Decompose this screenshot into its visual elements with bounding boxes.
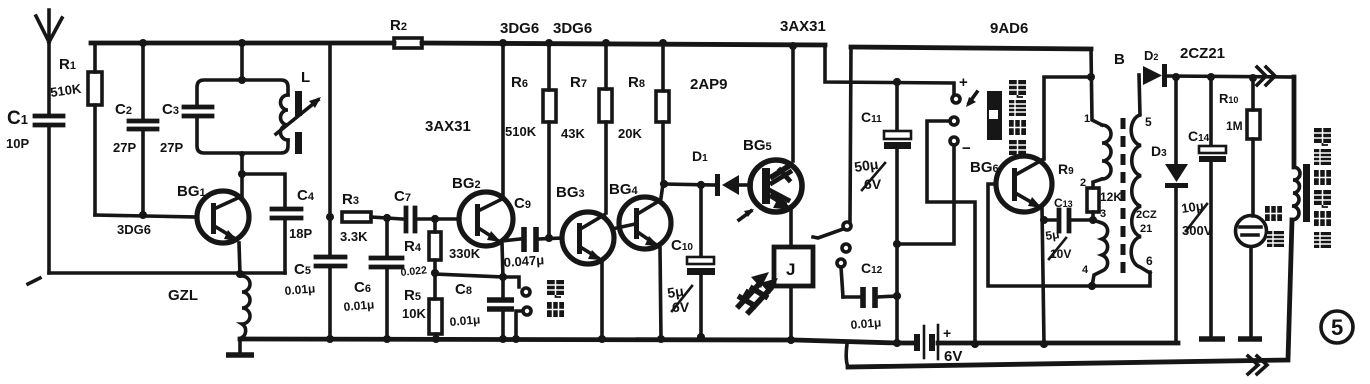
node R3/C6 junction xyxy=(383,214,391,222)
wire BG2 emitter down xyxy=(502,243,503,277)
label neon CJK xyxy=(1265,206,1284,247)
resistor R10 xyxy=(1219,78,1260,216)
svg-text:10P: 10P xyxy=(6,136,29,151)
label select (CJK) xyxy=(547,280,564,297)
diode D1 xyxy=(692,148,751,196)
svg-text:J: J xyxy=(786,260,795,279)
electromagnet core bar xyxy=(1303,164,1310,222)
wire BG6 base left and down to feedback xyxy=(988,184,1150,290)
capacitor C7 xyxy=(387,188,459,231)
node R10 top xyxy=(1249,74,1257,82)
wire antenna down to C1 xyxy=(47,42,51,113)
svg-text:6V: 6V xyxy=(672,299,690,315)
svg-text:300V: 300V xyxy=(1182,223,1213,238)
label power-jack CJK column xyxy=(1009,80,1026,157)
svg-text:0.01μ: 0.01μ xyxy=(449,312,481,329)
decorative tick xyxy=(28,278,40,284)
svg-text:6: 6 xyxy=(1146,254,1153,268)
diode D2 xyxy=(1143,48,1167,87)
wire rail corner down to winding 1 xyxy=(1091,49,1102,125)
svg-text:1: 1 xyxy=(1084,113,1090,125)
node C11 top junction xyxy=(893,78,901,86)
wire tank top riser xyxy=(238,39,246,84)
transistor BG2 xyxy=(452,175,513,246)
svg-text:0.01μ: 0.01μ xyxy=(343,297,375,314)
top rail xyxy=(91,43,825,45)
svg-text:−: − xyxy=(962,140,971,157)
svg-text:0.047μ: 0.047μ xyxy=(503,252,544,270)
svg-text:27P: 27P xyxy=(160,140,183,155)
wire rail drop to outer loop xyxy=(846,344,848,367)
wire right edge loop xyxy=(848,77,1294,367)
svg-text:12K: 12K xyxy=(1100,190,1122,204)
wire BG6 collector up xyxy=(1044,77,1091,159)
resistor R4 xyxy=(400,219,481,279)
wire BG3 emitter down xyxy=(598,261,606,343)
svg-text:2AP9: 2AP9 xyxy=(690,76,728,93)
resistor R1 xyxy=(49,43,102,215)
node D3 top xyxy=(1172,73,1180,81)
transistor BG6 xyxy=(996,156,1052,212)
capacitor C6 xyxy=(343,218,402,343)
capacitor C13 xyxy=(1044,196,1093,261)
svg-text:9AD6: 9AD6 xyxy=(990,20,1028,37)
node transformer top junction xyxy=(1087,73,1095,81)
wire BG1 emitter down xyxy=(239,243,240,274)
transformer primary upper winding xyxy=(1084,113,1111,179)
svg-text:0.01μ: 0.01μ xyxy=(850,315,882,332)
resistor R2 xyxy=(390,17,422,48)
node D1 wire junction xyxy=(660,180,668,188)
ground C14 xyxy=(1199,336,1225,342)
svg-text:3AX31: 3AX31 xyxy=(780,18,826,35)
svg-text:3DG6: 3DG6 xyxy=(553,20,592,37)
svg-text:1M: 1M xyxy=(1226,119,1243,133)
wire BG5 emitter to J xyxy=(789,210,793,247)
capacitor C1 xyxy=(6,108,63,151)
capacitor C12 xyxy=(843,260,897,332)
transistor BG1 xyxy=(117,183,249,243)
svg-text:330K: 330K xyxy=(449,246,481,261)
svg-text:3.3K: 3.3K xyxy=(340,229,368,244)
wire BG2 collector riser xyxy=(499,39,507,197)
node emitter junction xyxy=(236,270,244,278)
svg-text:5: 5 xyxy=(1331,315,1343,340)
light arrow small xyxy=(739,209,754,220)
wire R4 junction to C8 xyxy=(435,274,503,277)
ground neon xyxy=(1238,336,1262,342)
svg-text:C13: C13 xyxy=(1054,196,1073,210)
svg-text:43K: 43K xyxy=(561,126,585,141)
label trigger switch CJK column xyxy=(1314,128,1331,248)
svg-text:3DG6: 3DG6 xyxy=(117,222,151,237)
svg-text:20K: 20K xyxy=(618,126,642,141)
svg-text:0.01μ: 0.01μ xyxy=(284,281,316,298)
transformer primary lower winding xyxy=(1082,220,1108,286)
wire BG3 to BG4 base xyxy=(612,224,635,229)
wire C4 top branch xyxy=(242,174,285,207)
wire left bottom horizontal xyxy=(49,271,285,275)
ground xyxy=(226,339,254,355)
svg-text:4: 4 xyxy=(1082,264,1089,276)
svg-text:+: + xyxy=(959,74,968,91)
svg-text:L: L xyxy=(301,69,310,86)
wire BG4 emitter down xyxy=(657,248,665,343)
electromagnet coil xyxy=(1292,167,1300,220)
wire base rail y215 xyxy=(95,215,197,217)
transistor BG4 xyxy=(609,181,671,249)
node R4 top junction xyxy=(431,215,439,223)
resistor R3 xyxy=(340,191,387,244)
wire C1 down to bottom wire xyxy=(47,127,51,273)
svg-text:B: B xyxy=(1114,51,1125,68)
resistor R7 xyxy=(561,39,612,213)
svg-text:2CZ: 2CZ xyxy=(1136,209,1157,221)
wire jack middle contact zigzag xyxy=(927,121,979,348)
power jack contacts xyxy=(950,74,977,157)
svg-text:18P: 18P xyxy=(289,226,312,241)
svg-text:+: + xyxy=(943,325,951,341)
resistor R5 xyxy=(402,273,442,343)
capacitor C3 xyxy=(160,101,212,155)
capacitor C2 xyxy=(113,39,157,219)
transistor BG5 phototransistor xyxy=(743,137,802,212)
wire vertical x330 from rail xyxy=(326,45,334,221)
svg-text:6V: 6V xyxy=(864,176,882,192)
chevron top xyxy=(1257,67,1275,85)
transistor BG3 xyxy=(556,184,614,264)
svg-text:27P: 27P xyxy=(113,140,136,155)
wire tank bottom to BG1 collector xyxy=(238,151,246,199)
inductor GZL xyxy=(168,276,250,338)
resistor R9 xyxy=(1058,161,1122,224)
wire J to rail xyxy=(787,286,795,344)
svg-text:3DG6: 3DG6 xyxy=(500,20,539,37)
light arrows scribble xyxy=(737,272,778,314)
circled 5 xyxy=(1321,311,1353,343)
resistor R8 xyxy=(618,39,669,198)
capacitor C14 electrolytic xyxy=(1180,77,1226,336)
transformer core xyxy=(1121,118,1126,277)
chevron bottom xyxy=(1248,356,1267,374)
wire top rail corner down to y82 xyxy=(825,45,954,94)
switch contact upper (select) xyxy=(503,277,530,296)
node R4/R5 junction xyxy=(431,269,439,277)
capacitor C11 electrolytic xyxy=(853,82,911,347)
inductor L xyxy=(276,69,321,154)
svg-text:GZL: GZL xyxy=(168,287,198,304)
svg-text:5μ: 5μ xyxy=(1044,227,1060,243)
svg-text:3AX31: 3AX31 xyxy=(425,118,471,135)
svg-text:10K: 10K xyxy=(402,306,426,321)
neon lamp xyxy=(1236,216,1267,337)
power plug bar xyxy=(987,91,1002,140)
svg-text:21: 21 xyxy=(1140,223,1152,235)
switch contact lower (off) xyxy=(512,307,531,343)
svg-text:2CZ21: 2CZ21 xyxy=(1180,45,1225,62)
svg-text:10V: 10V xyxy=(1050,247,1071,261)
svg-text:50μ: 50μ xyxy=(853,156,879,175)
switch blade and contacts xyxy=(813,222,851,297)
svg-text:C1: C1 xyxy=(7,108,28,129)
resistor R6 xyxy=(505,39,556,238)
antenna xyxy=(36,10,62,42)
node tap 2 xyxy=(1080,177,1102,189)
relay J xyxy=(774,247,813,286)
battery 6V xyxy=(914,325,962,365)
node C8 top junction xyxy=(499,273,507,281)
capacitor C9 xyxy=(502,195,562,270)
capacitor C8 xyxy=(449,277,514,343)
capacitor C10 electrolytic xyxy=(666,185,715,341)
capacitor C4 xyxy=(272,187,315,273)
node C10 top junction xyxy=(697,181,705,189)
node R6 bottom junction xyxy=(545,234,553,242)
svg-text:5: 5 xyxy=(1145,115,1152,129)
wire jack minus contact down to C11 line xyxy=(897,145,954,244)
svg-text:510K: 510K xyxy=(505,124,537,139)
rail right segment xyxy=(851,47,1091,49)
capacitor C5 xyxy=(284,217,345,343)
diode D3 xyxy=(1151,77,1188,343)
wire D2 output top xyxy=(1167,76,1294,77)
transformer secondary winding xyxy=(1131,75,1157,273)
node C14 top xyxy=(1207,73,1215,81)
tank circuit box xyxy=(197,80,288,153)
svg-text:6V: 6V xyxy=(944,348,962,365)
wire BG5 collector riser xyxy=(789,42,797,161)
switch riser xyxy=(850,47,851,221)
svg-text:3: 3 xyxy=(1100,208,1106,220)
wire BG6 emitter down xyxy=(1040,208,1048,348)
label off (CJK) xyxy=(547,302,564,317)
bottom rail left xyxy=(240,339,1178,343)
wire to D1 xyxy=(664,184,715,185)
